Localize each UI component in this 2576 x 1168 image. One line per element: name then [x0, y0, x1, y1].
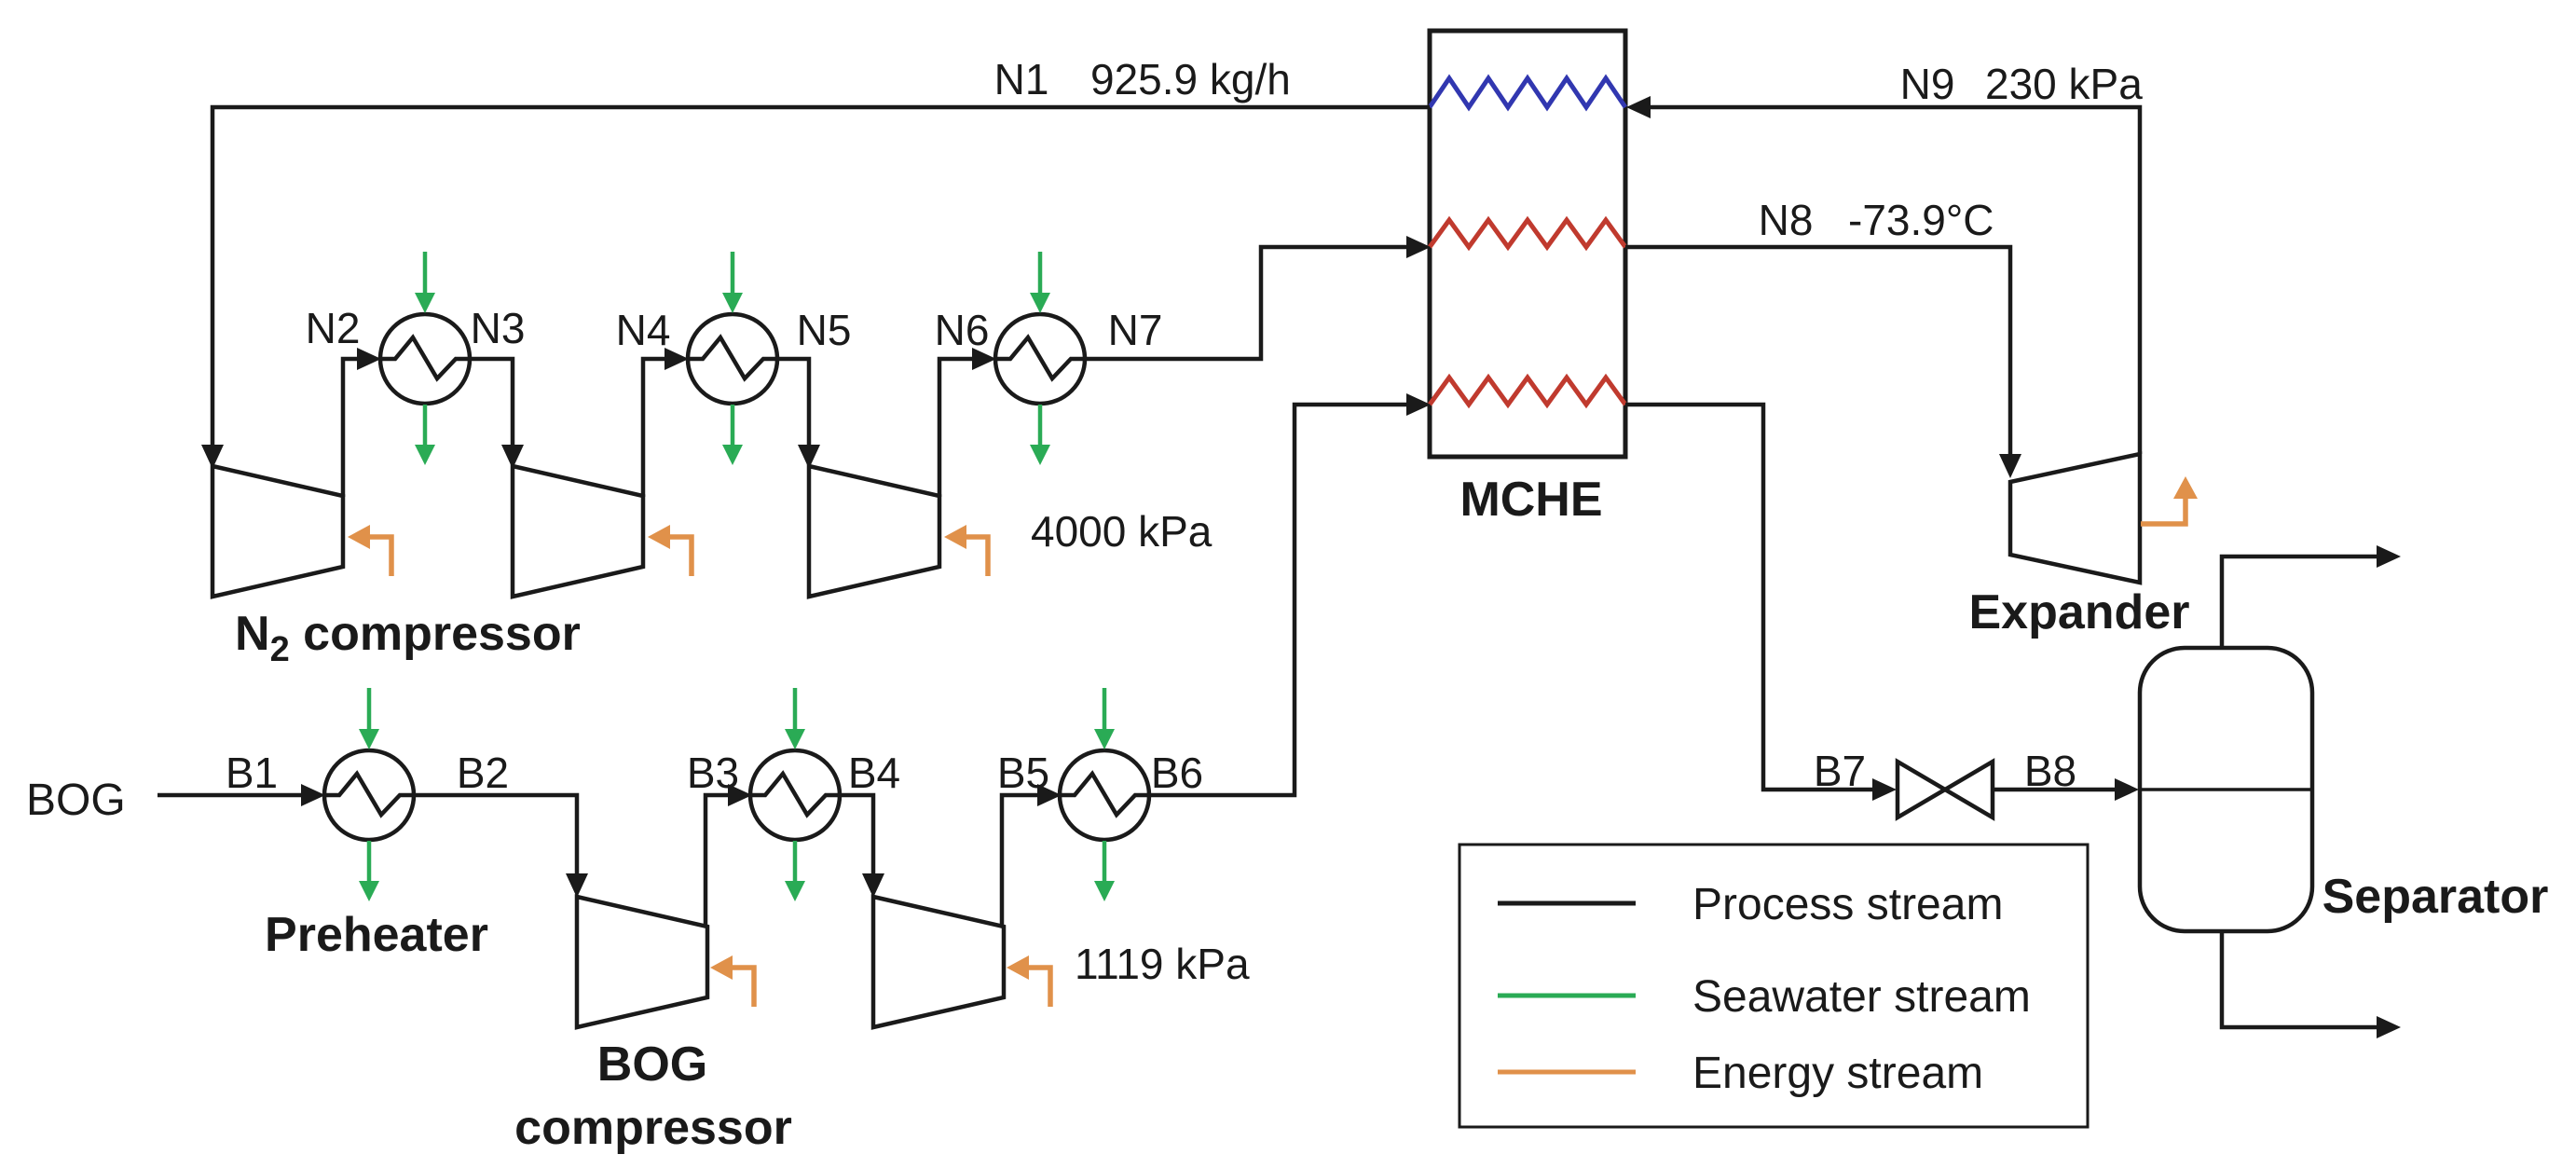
svg-text:N3: N3: [471, 304, 526, 352]
wire B4 HX to BOG compressor2: [839, 795, 884, 898]
svg-text:B2: B2: [457, 749, 509, 797]
svg-text:N1: N1: [994, 55, 1049, 103]
MCHE bottom red zigzag coil (B6-B7 stream): [1430, 378, 1625, 405]
seawater outlet arrow HX N2-N3: [415, 405, 435, 465]
wire N7 HX3 to MCHE: [1085, 236, 1431, 359]
svg-text:Energy stream: Energy stream: [1692, 1049, 1983, 1098]
svg-text:230 kPa: 230 kPa: [1985, 60, 2143, 108]
BOG compressor stage2: [873, 897, 1004, 1027]
svg-text:MCHE: MCHE: [1459, 473, 1602, 527]
svg-text:B8: B8: [2024, 747, 2076, 795]
compressor N2-stage3: [809, 466, 939, 597]
svg-text:N4: N4: [616, 306, 671, 354]
compressor N2-stage1: [212, 466, 343, 597]
energy stream arrow into N2 compressor stage1: [348, 525, 391, 576]
svg-text:BOG: BOG: [26, 776, 126, 825]
svg-text:N6: N6: [935, 306, 990, 354]
svg-text:B1: B1: [226, 749, 278, 797]
MCHE heat exchanger box: [1430, 31, 1625, 457]
seawater inlet arrow HX N6-N7: [1030, 252, 1050, 313]
MCHE blue zigzag coil (N9 stream): [1430, 78, 1625, 107]
legend box: [1459, 845, 2088, 1127]
seawater inlet arrow HX N4-N5: [722, 252, 743, 313]
wire B3 BOG compressor1 to HX: [706, 784, 752, 927]
svg-text:N8: N8: [1759, 196, 1814, 244]
seawater inlet arrow HX N2-N3: [415, 252, 435, 313]
legend energy stream entry: [1498, 1049, 1983, 1098]
wire N6 compressor3 to HX3: [939, 348, 996, 497]
energy stream arrow out of expander: [2141, 476, 2198, 524]
BOG compressor stage1: [577, 897, 707, 1027]
svg-text:Preheater: Preheater: [265, 908, 488, 962]
JT valve: [1898, 762, 1993, 818]
wire N2 compressor1 to HX1: [343, 348, 381, 497]
svg-text:N2: N2: [306, 304, 361, 352]
svg-text:925.9 kg/h: 925.9 kg/h: [1090, 55, 1291, 103]
preheater HX B1-B2: [324, 750, 414, 840]
svg-text:N7: N7: [1108, 306, 1163, 354]
seawater outlet arrow HX N4-N5: [722, 405, 743, 465]
svg-text:B4: B4: [848, 749, 900, 797]
svg-text:compressor: compressor: [514, 1101, 792, 1155]
wire N3 HX1 to compressor2: [470, 359, 524, 469]
svg-text:-73.9°C: -73.9°C: [1848, 196, 1994, 244]
wire N4 compressor2 to HX2: [643, 348, 689, 497]
wire N1 from MCHE to compressor stage1: [201, 107, 1430, 469]
wire B2 preheater to BOG compressor1: [413, 795, 588, 898]
svg-text:B6: B6: [1151, 749, 1203, 797]
wire B5 BOG compressor2 to HX: [1002, 784, 1062, 927]
energy stream arrow into BOG compressor stage2: [1007, 955, 1050, 1007]
compressor N2-stage2: [513, 466, 643, 597]
wire separator vapour outlet: [2222, 545, 2401, 648]
seawater outlet arrow HX B3-B4: [785, 841, 805, 901]
seawater outlet arrow HX N6-N7: [1030, 405, 1050, 465]
intercooler HX N6-N7: [995, 314, 1085, 404]
svg-text:Process stream: Process stream: [1692, 880, 2003, 929]
seawater inlet arrow HX B5-B6: [1094, 688, 1115, 749]
wire B7 MCHE to valve: [1625, 405, 1897, 801]
wire separator liquid outlet: [2222, 931, 2401, 1038]
svg-text:B5: B5: [997, 749, 1049, 797]
legend seawater stream entry: [1498, 972, 2031, 1022]
seawater inlet arrow HX B3-B4: [785, 688, 805, 749]
seawater inlet arrow preheater: [359, 688, 379, 749]
svg-text:BOG: BOG: [597, 1037, 707, 1092]
label BOG compressor: [514, 1037, 792, 1155]
energy stream arrow into N2 compressor stage3: [944, 525, 988, 576]
wire B8 valve to separator: [1993, 778, 2139, 801]
wire B6 HX to MCHE: [1148, 393, 1431, 795]
svg-text:N5: N5: [797, 306, 852, 354]
intercooler HX B3-B4: [750, 750, 840, 840]
wire N9 expander to MCHE: [1626, 96, 2140, 454]
svg-text:Expander: Expander: [1969, 585, 2190, 639]
wire N8 MCHE to expander: [1625, 247, 2021, 478]
seawater outlet arrow HX B5-B6: [1094, 841, 1115, 901]
svg-text:4000 kPa: 4000 kPa: [1031, 507, 1213, 556]
expander turbine: [2010, 454, 2140, 583]
energy stream arrow into N2 compressor stage2: [648, 525, 692, 576]
intercooler HX N4-N5: [688, 314, 777, 404]
svg-text:B7: B7: [1814, 747, 1866, 795]
intercooler HX N2-N3: [380, 314, 470, 404]
svg-text:Seawater stream: Seawater stream: [1692, 972, 2031, 1022]
legend process stream entry: [1498, 880, 2003, 929]
wire B1 BOG feed to preheater: [158, 784, 325, 806]
wire N5 HX2 to compressor3: [777, 359, 820, 469]
intercooler HX B5-B6: [1060, 750, 1149, 840]
svg-text:B3: B3: [687, 749, 739, 797]
energy stream arrow into BOG compressor stage1: [710, 955, 754, 1007]
MCHE middle red zigzag coil (N7-N8 stream): [1430, 220, 1625, 247]
svg-text:1119 kPa: 1119 kPa: [1075, 940, 1250, 988]
separator vessel: [2140, 648, 2312, 931]
seawater outlet arrow preheater: [359, 841, 379, 901]
svg-text:N9: N9: [1900, 60, 1955, 108]
svg-text:Separator: Separator: [2323, 870, 2549, 924]
